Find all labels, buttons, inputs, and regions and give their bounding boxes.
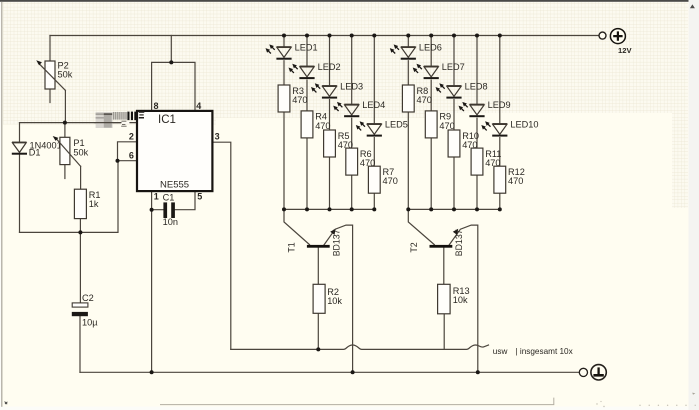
- wire: T1 collector: [284, 209, 310, 244]
- capacitor C2 (electrolytic): [72, 293, 98, 327]
- LED LED1: [266, 42, 318, 59]
- svg-text:2: 2: [129, 132, 134, 142]
- svg-text:LED3: LED3: [340, 81, 363, 91]
- resistor R7: [368, 166, 397, 193]
- wire: LED column 2: [306, 36, 308, 210]
- resistor R6: [346, 148, 375, 175]
- junction LED column 10 at cathode rail: [498, 207, 502, 211]
- resistor R2: [313, 284, 342, 313]
- svg-text:LED2: LED2: [318, 62, 341, 72]
- svg-text:LED1: LED1: [295, 42, 318, 52]
- svg-text:1k: 1k: [89, 199, 99, 209]
- svg-text:D1: D1: [29, 147, 41, 157]
- junction LED column 8 at cathode rail: [452, 207, 456, 211]
- LED LED4: [333, 100, 385, 117]
- junction LED column 5 at +12V rail: [372, 34, 376, 38]
- node P1/P2 wiper junction: [63, 121, 67, 125]
- wire: T2 base lead: [443, 248, 445, 285]
- wire: LED column 4: [351, 36, 353, 210]
- wire: LED column 10: [499, 36, 501, 210]
- svg-text:LED9: LED9: [488, 100, 511, 110]
- node pins 2/6 junction: [116, 159, 120, 163]
- potentiometer P2: [36, 60, 73, 90]
- potentiometer P1: [53, 136, 89, 166]
- svg-text:10k: 10k: [327, 296, 342, 306]
- resistor R8: [402, 85, 431, 112]
- wire: node rail to IC pin 7: [20, 122, 138, 124]
- wire: R1 bottom lead: [79, 219, 81, 233]
- wire: T2 collector: [408, 209, 434, 244]
- junction T1 emitter at ground rail: [351, 370, 355, 374]
- +12V supply terminal: [599, 29, 632, 55]
- wire: T1 emitter vertical to ground: [324, 225, 353, 372]
- svg-text:BD137: BD137: [331, 229, 341, 256]
- wire: D1 leads: [19, 123, 21, 233]
- resistor R5: [324, 130, 353, 157]
- LED LED8: [436, 81, 488, 98]
- svg-text:10µ: 10µ: [82, 318, 98, 328]
- wire: C2 bottom lead: [79, 316, 81, 372]
- wire: T2 emitter vertical to ground: [449, 225, 478, 372]
- grid area top band: [3, 2, 688, 113]
- resistor R13: [438, 284, 470, 314]
- svg-text:LED4: LED4: [362, 100, 385, 110]
- svg-text:50k: 50k: [73, 147, 88, 157]
- LED LED6: [390, 42, 442, 59]
- junction R1/D1/C2 rail: [78, 230, 82, 234]
- junction R2 at base rail: [316, 347, 320, 351]
- junction LED column 1 at +12V rail: [282, 34, 286, 38]
- wire: LED column 8: [453, 36, 455, 210]
- IC1 pin numbers: [129, 101, 220, 201]
- resistor R3: [278, 85, 307, 112]
- capacitor C1: [163, 193, 178, 228]
- wire: LED column 6: [407, 36, 409, 210]
- wire: R13 bottom lead: [443, 314, 445, 350]
- LED LED10: [481, 119, 538, 136]
- wire: P2 wiper drop to node: [64, 90, 66, 122]
- LED LED9: [459, 100, 511, 117]
- svg-text:C1: C1: [163, 193, 175, 203]
- wire: ground rail: [80, 371, 579, 373]
- junction T2 emitter at ground rail: [476, 370, 480, 374]
- bottom-left scroll arrow: [5, 402, 8, 405]
- junction LED column 9 at +12V rail: [475, 34, 479, 38]
- resistor R9: [425, 111, 454, 138]
- junction LED column 3 at cathode rail: [328, 207, 332, 211]
- wire: +12V top rail: [50, 35, 600, 37]
- wire: P2 top lead: [49, 36, 51, 62]
- watermark artifact block: [95, 111, 144, 128]
- svg-text:10n: 10n: [163, 217, 178, 227]
- svg-text:470: 470: [439, 121, 454, 131]
- ground terminal: [579, 365, 606, 380]
- junction LED column 3 at +12V rail: [328, 34, 332, 38]
- grid area right strip: [672, 113, 688, 208]
- svg-text:50k: 50k: [58, 70, 73, 80]
- wire: lower-left rail to pins 2/6 node: [20, 161, 119, 233]
- junction LED column 9 at cathode rail: [475, 207, 479, 211]
- svg-text:470: 470: [508, 176, 523, 186]
- svg-text:470: 470: [292, 95, 307, 105]
- resistor R10: [448, 130, 479, 157]
- svg-text:470: 470: [383, 176, 398, 186]
- svg-text:10k: 10k: [453, 295, 468, 305]
- wire: IC pin 3 to base rail: [213, 142, 231, 349]
- transistor T1 (BD137): [286, 229, 341, 256]
- LED LED3: [311, 81, 363, 98]
- wire: LED group 2 bottom rail: [408, 208, 500, 210]
- bottom-right faint dot rows: [596, 393, 696, 408]
- junction LED column 2 at +12V rail: [305, 34, 309, 38]
- resistor R4: [301, 111, 330, 138]
- wire: T1 base lead: [317, 248, 319, 285]
- svg-text:470: 470: [315, 121, 330, 131]
- resistor R12: [494, 166, 525, 193]
- LED LED2: [289, 62, 341, 79]
- svg-text:T1: T1: [286, 242, 296, 252]
- wire: LED column 1: [283, 36, 285, 210]
- LED LED7: [413, 62, 465, 79]
- svg-text:C2: C2: [82, 293, 94, 303]
- wire: LED group 1 bottom rail: [284, 208, 374, 210]
- svg-text:3: 3: [215, 132, 220, 142]
- op IC1 NE555 box: [137, 111, 212, 191]
- svg-text:6: 6: [129, 150, 134, 160]
- svg-text:5: 5: [197, 191, 202, 201]
- svg-text:NE555: NE555: [160, 180, 189, 191]
- junction LED column 8 at +12V rail: [452, 34, 456, 38]
- svg-text:T2: T2: [409, 242, 419, 252]
- note: usw | insgesamt 10x: [493, 347, 573, 356]
- wire: node to IC pin 2: [118, 142, 138, 161]
- junction supply tee above IC1: [169, 60, 173, 64]
- wire: LED column 3: [329, 36, 331, 210]
- svg-text:| insgesamt 10x: | insgesamt 10x: [516, 347, 573, 356]
- svg-text:BD137: BD137: [454, 229, 464, 256]
- right scrollbar strip: [689, 0, 699, 410]
- svg-text:4: 4: [196, 101, 201, 111]
- wire: supply tee to pins 8 and 4: [152, 36, 195, 111]
- svg-text:8: 8: [154, 101, 159, 111]
- svg-text:LED7: LED7: [442, 62, 465, 72]
- grid area mid-left band: [3, 113, 430, 118]
- wire: P1 wiper drop to R1: [80, 166, 82, 189]
- wire: P2 unused stub: [49, 89, 51, 103]
- junction LED column 7 at +12V rail: [429, 34, 433, 38]
- junction LED column 4 at +12V rail: [350, 34, 354, 38]
- junction pin1/C1: [150, 208, 154, 212]
- junction LED column 6 at +12V rail: [406, 34, 410, 38]
- wire: base rail with hops and break: [231, 345, 489, 349]
- left frame line: [1, 2, 2, 407]
- grid area left band: [3, 118, 216, 125]
- junction LED column 5 at cathode rail: [372, 207, 376, 211]
- LED LED5: [356, 119, 408, 136]
- svg-text:1: 1: [154, 191, 159, 201]
- wire: LED column 7: [430, 36, 432, 210]
- junction LED column 7 at cathode rail: [429, 207, 433, 211]
- bottom frame line: [160, 398, 554, 405]
- svg-text:usw: usw: [493, 347, 508, 356]
- transistor T2 (BD137): [409, 229, 464, 256]
- wire: IC pin 1 column down to ground: [151, 191, 153, 372]
- svg-text:12V: 12V: [618, 46, 632, 55]
- top frame bar: [0, 0, 699, 2]
- svg-text:470: 470: [417, 95, 432, 105]
- junction LED column 4 at cathode rail: [350, 207, 354, 211]
- wire: P1 unused stub: [64, 165, 66, 179]
- wire: C1 connections to pins 1 and 5: [152, 191, 195, 210]
- wire: R2 bottom lead: [317, 313, 319, 349]
- junction LED column 10 at +12V rail: [498, 34, 502, 38]
- wire: P1 top lead: [64, 123, 66, 138]
- diode D1 (1N4001): [12, 140, 62, 157]
- svg-text:LED8: LED8: [465, 81, 488, 91]
- wire: LED column 5: [373, 36, 375, 210]
- svg-text:LED5: LED5: [385, 119, 408, 129]
- resistor R1: [74, 189, 100, 218]
- wire: LED column 9: [476, 36, 478, 210]
- junction LED column 1 at cathode rail: [282, 207, 286, 211]
- junction LED column 2 at cathode rail: [305, 207, 309, 211]
- wire: node to IC pin 6: [118, 160, 138, 162]
- wire: C2 top lead: [79, 232, 81, 303]
- junction C2 column at ground rail: [150, 370, 154, 374]
- svg-text:LED10: LED10: [510, 119, 538, 129]
- svg-text:LED6: LED6: [419, 42, 442, 52]
- svg-text:IC1: IC1: [158, 114, 176, 126]
- junction LED column 6 at cathode rail: [406, 207, 410, 211]
- resistor R11: [471, 148, 501, 175]
